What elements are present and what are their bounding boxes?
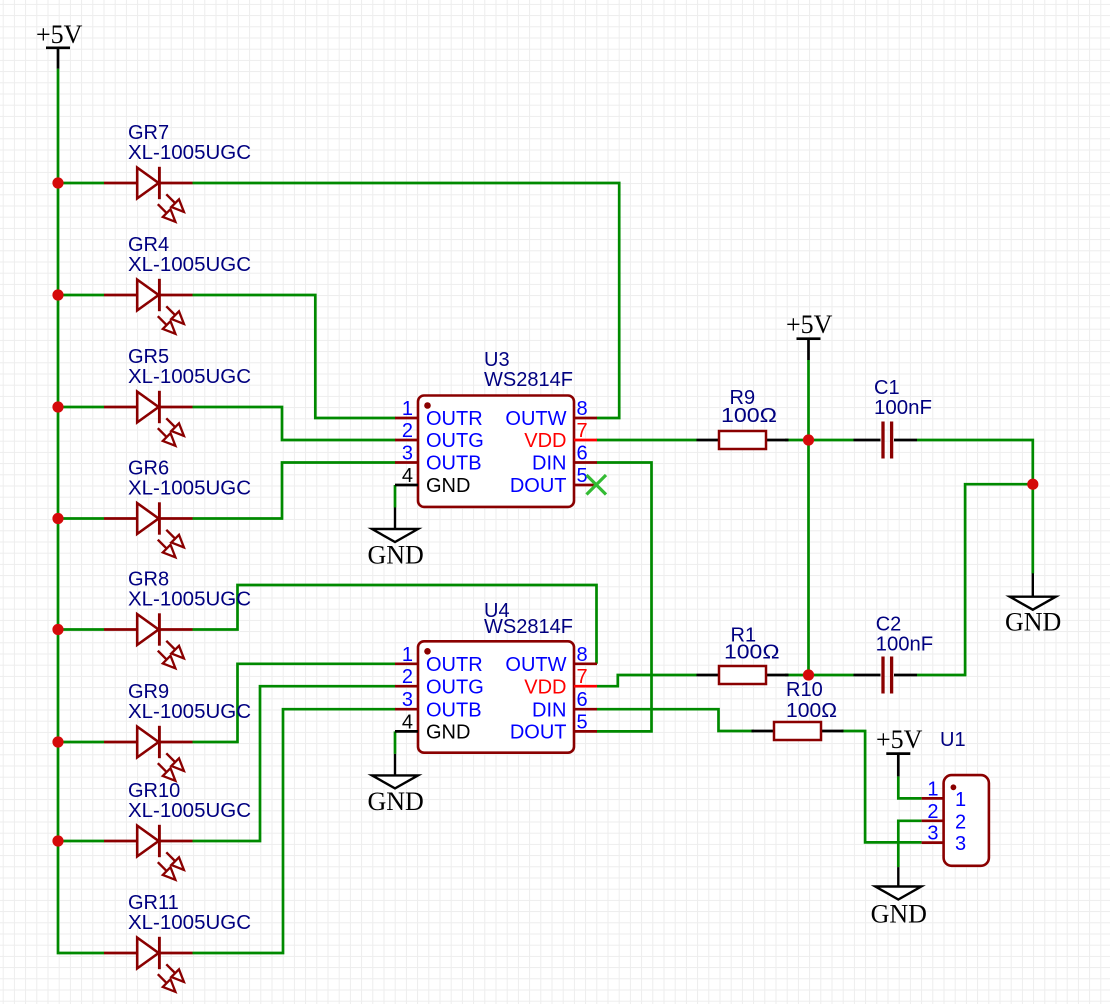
- junction on +5V rail at LED row 5: [52, 624, 63, 635]
- U4 pin name GND: [426, 722, 470, 744]
- label GR4 designator: [128, 234, 169, 256]
- U3 pin name OUTG: [426, 430, 484, 452]
- U3 pin name OUTW: [505, 408, 566, 430]
- U3 pin number 5: [577, 465, 588, 487]
- U4 pin 4 stub: [395, 730, 418, 733]
- wire: GR10 cathode to U4 pin 2 OUTG: [193, 686, 396, 841]
- U3 pin name GND: [426, 475, 470, 497]
- wire: U4 pin 7 VDD jog up to R1: [597, 675, 697, 686]
- LED GR5: [104, 391, 193, 446]
- U4 pin name DOUT: [510, 722, 567, 744]
- capacitor C2: [854, 657, 918, 694]
- label GR4 value XL-1005UGC: [128, 254, 251, 276]
- svg-text:U1: U1: [940, 729, 966, 751]
- U4 pin 1 stub: [395, 662, 418, 665]
- label R9 designator: [730, 387, 756, 409]
- wire: rail to GR10 anode: [58, 840, 104, 843]
- U1 pin number 3 (outside): [927, 823, 938, 845]
- junction on +5V rail at LED row 2: [52, 289, 63, 300]
- svg-text:XL-1005UGC: XL-1005UGC: [128, 254, 251, 276]
- U4 pin 3 stub: [395, 708, 418, 711]
- label C2 designator: [876, 613, 902, 635]
- svg-text:GR7: GR7: [128, 122, 169, 144]
- label GR6 designator: [128, 458, 169, 480]
- label R1 designator: [731, 625, 757, 647]
- svg-text:OUTG: OUTG: [426, 676, 484, 698]
- label R9 value 100&#937;: [721, 405, 777, 427]
- LED GR9: [104, 726, 193, 781]
- power flag +5V (middle, above R9/C1 junction): [786, 310, 833, 360]
- U3 pin number 7: [577, 420, 588, 442]
- svg-text:XL-1005UGC: XL-1005UGC: [128, 366, 251, 388]
- svg-text:2: 2: [402, 666, 413, 688]
- svg-text:XL-1005UGC: XL-1005UGC: [128, 800, 251, 822]
- svg-text:C1: C1: [874, 377, 900, 399]
- label GR5 designator: [128, 346, 169, 368]
- svg-text:1: 1: [927, 778, 938, 800]
- wire: rail to GR6 anode: [58, 517, 104, 520]
- svg-text:DOUT: DOUT: [510, 722, 567, 744]
- LED GR4: [104, 279, 193, 334]
- U1 pin 2 stub: [922, 819, 944, 822]
- label GR11 value XL-1005UGC: [128, 912, 251, 934]
- U3 pin number 4: [402, 465, 413, 487]
- svg-text:+5V: +5V: [786, 310, 833, 339]
- wire: U4 pin 6 DIN jog down to R10: [597, 709, 755, 731]
- U3 pin 1 stub: [395, 417, 418, 420]
- LED GR6: [104, 502, 193, 557]
- label GR6 value XL-1005UGC: [128, 478, 251, 500]
- wire: U3 pin 7 VDD to R9: [597, 439, 697, 442]
- svg-text:XL-1005UGC: XL-1005UGC: [128, 478, 251, 500]
- svg-text:5: 5: [577, 711, 588, 733]
- U3 pin 5 stub: [574, 484, 597, 487]
- svg-text:XL-1005UGC: XL-1005UGC: [128, 589, 251, 611]
- junction on +5V rail at LED row 6: [52, 736, 63, 747]
- svg-text:OUTB: OUTB: [426, 699, 482, 721]
- U1 pin number 1 (outside): [927, 778, 938, 800]
- wire: junction to C2: [809, 674, 854, 677]
- ground below U1: [871, 867, 927, 928]
- svg-text:C2: C2: [876, 613, 902, 635]
- svg-text:6: 6: [577, 689, 588, 711]
- wire: R9 to +5V junction: [785, 439, 809, 442]
- U4 pin number 7: [577, 666, 588, 688]
- svg-text:100Ω: 100Ω: [724, 642, 780, 664]
- label R1 value 100&#937;: [724, 642, 780, 664]
- U3 pin number 2: [402, 420, 413, 442]
- U3 pin number 1: [402, 398, 413, 420]
- label C1 value 100nF: [874, 397, 932, 419]
- U4 pin number 1: [402, 644, 413, 666]
- U4 pin 6 stub: [574, 708, 597, 711]
- svg-text:+5V: +5V: [876, 725, 923, 754]
- wire: GND junction down to GND symbol: [1031, 484, 1034, 573]
- U3 pin name DIN: [532, 453, 566, 475]
- wire: rail to GR5 anode: [58, 406, 104, 409]
- U3 pin 8 stub: [574, 417, 597, 420]
- wire: rail to GR9 anode: [58, 741, 104, 744]
- label GR11 designator: [128, 892, 179, 914]
- U4 pin number 6: [577, 689, 588, 711]
- U4 pin number 4: [402, 711, 413, 733]
- svg-text:3: 3: [955, 833, 966, 855]
- U3 pin name DOUT: [510, 475, 567, 497]
- U4 pin number 2: [402, 666, 413, 688]
- wire: rail to GR7 anode: [58, 182, 104, 185]
- svg-text:8: 8: [577, 398, 588, 420]
- label GR5 value XL-1005UGC: [128, 366, 251, 388]
- svg-text:GND: GND: [426, 722, 470, 744]
- svg-text:6: 6: [577, 443, 588, 465]
- wire: U3 pin 6 DIN to U4 pin 5 DOUT: [597, 463, 652, 732]
- svg-text:GND: GND: [426, 475, 470, 497]
- wire: GR8 cathode to U4 pin 8 OUTW: [193, 585, 597, 664]
- U4 pin 8 stub: [574, 662, 597, 665]
- label C2 value 100nF: [876, 634, 934, 656]
- svg-text:OUTG: OUTG: [426, 430, 484, 452]
- connector U1 body: [944, 775, 989, 866]
- wire: GR11 cathode to U4 pin 3 OUTB: [193, 709, 396, 953]
- U1 pin name 3 (inside): [955, 833, 966, 855]
- U1 pin 1 stub: [922, 797, 944, 800]
- junction C1/C2 ground node: [1027, 479, 1038, 490]
- U3 pin number 8: [577, 398, 588, 420]
- svg-text:VDD: VDD: [524, 430, 566, 452]
- svg-text:GND: GND: [368, 541, 424, 570]
- svg-text:4: 4: [402, 465, 413, 487]
- junction on +5V rail at LED row 7: [52, 835, 63, 846]
- svg-text:2: 2: [402, 420, 413, 442]
- ground below U3: [368, 508, 424, 570]
- svg-text:GR9: GR9: [128, 681, 169, 703]
- svg-text:1: 1: [402, 644, 413, 666]
- junction on +5V rail at LED row 1: [52, 177, 63, 188]
- label U3 value WS2814F: [484, 369, 573, 391]
- LED GR10: [104, 825, 193, 880]
- resistor R1: [697, 666, 789, 684]
- capacitor C1: [854, 422, 918, 459]
- U4 pin number 5: [577, 711, 588, 733]
- wire: U4 pin 4 to GND: [394, 731, 397, 754]
- svg-text:7: 7: [577, 666, 588, 688]
- U3 pin name VDD: [524, 430, 566, 452]
- LED GR7: [104, 167, 193, 222]
- U3 pin 2 stub: [395, 439, 418, 442]
- U3 pin name OUTB: [426, 453, 482, 475]
- U4 pin name OUTB: [426, 699, 482, 721]
- svg-text:3: 3: [402, 443, 413, 465]
- U3 pin 4 stub: [395, 484, 418, 487]
- LED GR11: [104, 937, 193, 992]
- U1 pin name 2 (inside): [955, 811, 966, 833]
- wire: C2 right riser to GND junction: [917, 484, 1033, 675]
- svg-text:XL-1005UGC: XL-1005UGC: [128, 142, 251, 164]
- U4 pin name OUTG: [426, 676, 484, 698]
- svg-text:GR4: GR4: [128, 234, 169, 256]
- svg-text:100nF: 100nF: [876, 634, 934, 656]
- svg-text:1: 1: [955, 789, 966, 811]
- op IC U3 WS2814F body: [418, 396, 574, 507]
- svg-text:R10: R10: [786, 679, 823, 701]
- wire: GR9 cathode to U4 pin 1 OUTR: [193, 664, 396, 742]
- label R10 value 100&#937;: [786, 700, 837, 722]
- U4 pin name DIN: [532, 699, 566, 721]
- svg-text:DIN: DIN: [532, 453, 566, 475]
- wire: rail to GR4 anode: [58, 294, 104, 297]
- svg-text:7: 7: [577, 420, 588, 442]
- wire: R1 to +5V junction: [785, 674, 809, 677]
- LED GR8: [104, 613, 193, 668]
- svg-text:OUTR: OUTR: [426, 654, 483, 676]
- svg-text:GR6: GR6: [128, 458, 169, 480]
- wire: rail to GR8 anode: [58, 628, 104, 631]
- svg-text:GND: GND: [368, 787, 424, 816]
- U1 pin name 1 (inside): [955, 789, 966, 811]
- svg-text:WS2814F: WS2814F: [484, 369, 573, 391]
- svg-text:100Ω: 100Ω: [786, 700, 837, 722]
- svg-text:GR11: GR11: [128, 892, 179, 914]
- U3 pin 6 stub: [574, 461, 597, 464]
- svg-text:DIN: DIN: [532, 699, 566, 721]
- wire: +5V rail vertical with bottom elbow to GR11: [58, 69, 104, 953]
- label U4 designator: [484, 600, 510, 622]
- svg-text:WS2814F: WS2814F: [484, 616, 573, 638]
- label U1 designator: [940, 729, 966, 751]
- svg-text:4: 4: [402, 711, 413, 733]
- label GR9 designator: [128, 681, 169, 703]
- svg-text:GND: GND: [1005, 608, 1061, 637]
- wire: junction to C1: [809, 439, 854, 442]
- svg-text:2: 2: [955, 811, 966, 833]
- junction R1/C2/+5V node: [803, 669, 814, 680]
- U4 pin name OUTW: [505, 654, 566, 676]
- wire: GR4 cathode to U3 pin 1 OUTR: [193, 295, 396, 418]
- wire: U1 pin 2 to GND: [898, 821, 921, 867]
- svg-text:100nF: 100nF: [874, 397, 932, 419]
- svg-text:U3: U3: [484, 349, 510, 371]
- junction R9/C1/+5V node: [803, 434, 814, 445]
- junction on +5V rail at LED row 3: [52, 401, 63, 412]
- wire: U3 pin 4 to GND: [394, 485, 397, 508]
- svg-text:1: 1: [402, 398, 413, 420]
- svg-text:GR8: GR8: [128, 569, 169, 591]
- svg-text:OUTR: OUTR: [426, 408, 483, 430]
- U4 pin name VDD: [524, 676, 566, 698]
- label GR8 value XL-1005UGC: [128, 589, 251, 611]
- power flag +5V PWR (top left): [36, 20, 83, 69]
- label U4 value WS2814F: [484, 616, 573, 638]
- resistor R9: [697, 431, 789, 449]
- svg-text:OUTW: OUTW: [505, 654, 566, 676]
- junction on +5V rail at LED row 4: [52, 513, 63, 524]
- svg-text:100Ω: 100Ω: [721, 405, 777, 427]
- wire: +5V to U1 pin 1: [898, 776, 921, 798]
- svg-text:GR10: GR10: [128, 780, 180, 802]
- label GR10 designator: [128, 780, 180, 802]
- U1 pin 3 stub: [922, 841, 944, 844]
- svg-text:3: 3: [927, 823, 938, 845]
- label U3 designator: [484, 349, 510, 371]
- U4 pin number 8: [577, 644, 588, 666]
- label C1 designator: [874, 377, 900, 399]
- no-connect X on U3 DOUT: [587, 475, 607, 495]
- svg-text:2: 2: [927, 801, 938, 823]
- svg-text:8: 8: [577, 644, 588, 666]
- U3 pin number 6: [577, 443, 588, 465]
- U1 pin number 2 (outside): [927, 801, 938, 823]
- svg-text:OUTB: OUTB: [426, 453, 482, 475]
- ground below U4: [368, 754, 424, 816]
- label R10 designator: [786, 679, 823, 701]
- svg-text:OUTW: OUTW: [505, 408, 566, 430]
- power flag +5V (at U1 pin 1): [876, 725, 923, 776]
- wire: C1 to right elbow down to GND junction: [917, 440, 1033, 484]
- label GR7 designator: [128, 122, 169, 144]
- svg-text:XL-1005UGC: XL-1005UGC: [128, 701, 251, 723]
- U4 pin name OUTR: [426, 654, 483, 676]
- svg-text:VDD: VDD: [524, 676, 566, 698]
- wire: R10 to U1 pin 3: [842, 731, 922, 842]
- label GR9 value XL-1005UGC: [128, 701, 251, 723]
- U4 pin 2 stub: [395, 685, 418, 688]
- wire: GR5 cathode to U3 pin 2 OUTG: [193, 407, 396, 440]
- U4 pin 7 stub: [574, 685, 597, 688]
- wire: GR6 cathode to U3 pin 3 OUTB: [193, 463, 396, 519]
- svg-text:XL-1005UGC: XL-1005UGC: [128, 912, 251, 934]
- label GR10 value XL-1005UGC: [128, 800, 251, 822]
- wire: GR7 cathode to U3 pin 8 OUTW: [193, 183, 620, 418]
- wire: +5V middle vertical (through both junctions): [807, 360, 810, 675]
- resistor R10: [752, 722, 844, 740]
- svg-text:+5V: +5V: [36, 20, 83, 49]
- svg-text:3: 3: [402, 689, 413, 711]
- label GR8 designator: [128, 569, 169, 591]
- U3 pin 7 stub: [574, 439, 597, 442]
- label GR7 value XL-1005UGC: [128, 142, 251, 164]
- svg-text:GND: GND: [871, 900, 927, 929]
- op IC U4 WS2814F body: [418, 641, 574, 752]
- svg-text:GR5: GR5: [128, 346, 169, 368]
- U4 pin number 3: [402, 689, 413, 711]
- U3 pin 3 stub: [395, 461, 418, 464]
- svg-text:DOUT: DOUT: [510, 475, 567, 497]
- U3 pin number 3: [402, 443, 413, 465]
- ground right (C1/C2 return): [1005, 573, 1061, 636]
- U4 pin 5 stub: [574, 730, 597, 733]
- U3 pin name OUTR: [426, 408, 483, 430]
